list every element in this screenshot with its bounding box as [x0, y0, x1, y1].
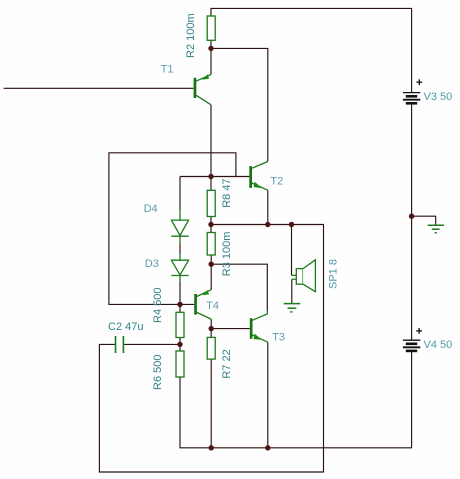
node below R2: [208, 46, 213, 51]
node C2 R4 R6: [177, 342, 182, 347]
wire node D to T3 base: [211, 328, 250, 330]
wire diode chain bottom: [179, 282, 181, 304]
wire ground tap: [412, 216, 436, 224]
svg-text:R2 100m: R2 100m: [185, 13, 197, 58]
wire R8 top: [210, 177, 212, 191]
speaker SP1: [292, 260, 316, 292]
ground right: [428, 225, 444, 233]
resistor R6: [176, 351, 184, 377]
node T2 base: [208, 174, 213, 179]
wire output row to feedback column down and to C2: [99, 225, 323, 473]
wire V3 minus to V4 plus: [411, 104, 413, 340]
svg-text:R8 47: R8 47: [221, 178, 233, 207]
wire speaker bottom to ground: [291, 279, 293, 303]
transistor T2: [249, 162, 267, 191]
resistor R7: [207, 337, 215, 359]
node V3 minus ground: [409, 214, 414, 219]
wire R3 bottom to node C to T4 emitter: [210, 255, 212, 290]
wire T3 emitter down to ground rail: [267, 342, 269, 448]
ground speaker: [284, 304, 300, 312]
resistor R4: [176, 312, 184, 337]
svg-text:D3: D3: [145, 258, 159, 270]
wire T4 collector to node D: [210, 319, 212, 329]
wire top rail R2 top to V3: [211, 8, 412, 92]
wire T1 base: [4, 87, 194, 89]
svg-text:T1: T1: [161, 63, 174, 75]
wire R7 bottom to ground rail: [210, 359, 212, 448]
svg-text:R7 22: R7 22: [221, 349, 233, 378]
wire node C right to T3 collector: [211, 264, 267, 310]
capacitor C2: [116, 336, 124, 353]
diode D3: [171, 254, 188, 283]
node ground rail left: [209, 445, 214, 450]
node speaker tap: [289, 222, 294, 227]
transistor T1: [194, 74, 211, 105]
svg-text:T3: T3: [272, 331, 285, 343]
svg-text:SP1 8: SP1 8: [328, 259, 340, 289]
node output row left: [208, 222, 213, 227]
wire T1 collector down to node B: [210, 105, 212, 177]
resistor R3: [207, 233, 215, 256]
svg-text:T4: T4: [206, 300, 219, 312]
wire junction A right and down to T2 collector: [211, 48, 268, 161]
svg-text:V4 50: V4 50: [424, 339, 453, 351]
transistor T3: [250, 310, 268, 342]
svg-text:R4 500: R4 500: [152, 288, 164, 323]
wire R4 top stub: [179, 304, 181, 312]
node T4 base: [177, 302, 182, 307]
svg-text:T2: T2: [270, 176, 283, 188]
resistor R8: [207, 190, 215, 216]
wire T2 emitter down to output row: [267, 190, 269, 224]
diode D4: [171, 210, 188, 244]
wire R4 bottom node E R6 top: [179, 338, 181, 352]
svg-text:V3 50: V3 50: [424, 91, 453, 103]
resistor R2: [207, 16, 215, 40]
wire C2 right plate to node E: [124, 343, 180, 345]
battery V3: [403, 79, 422, 103]
node output row mid: [265, 222, 270, 227]
wire between diodes: [179, 244, 181, 254]
wire ground rail with R6 bend and V4 stem: [180, 351, 412, 448]
wire speaker feed: [291, 225, 293, 276]
wire R2 bottom to junction A and down to T1 emitter: [210, 40, 212, 74]
svg-text:R6 500: R6 500: [152, 355, 164, 390]
node T4 collector R7: [209, 326, 214, 331]
svg-text:R3 100m: R3 100m: [221, 232, 233, 277]
node below R3: [209, 262, 214, 267]
wire R7 top: [210, 329, 212, 338]
svg-text:D4: D4: [144, 203, 158, 215]
battery V4: [403, 328, 422, 351]
wire node B row to T2 base and diode chain: [180, 176, 249, 178]
transistor T4: [194, 290, 211, 319]
wire diode chain top: [179, 177, 181, 210]
node ground rail right: [265, 445, 270, 450]
wire left feedback loop: [109, 153, 236, 305]
wire R8 bottom to R3 top: [210, 217, 212, 233]
svg-text:C2 47u: C2 47u: [108, 321, 143, 333]
